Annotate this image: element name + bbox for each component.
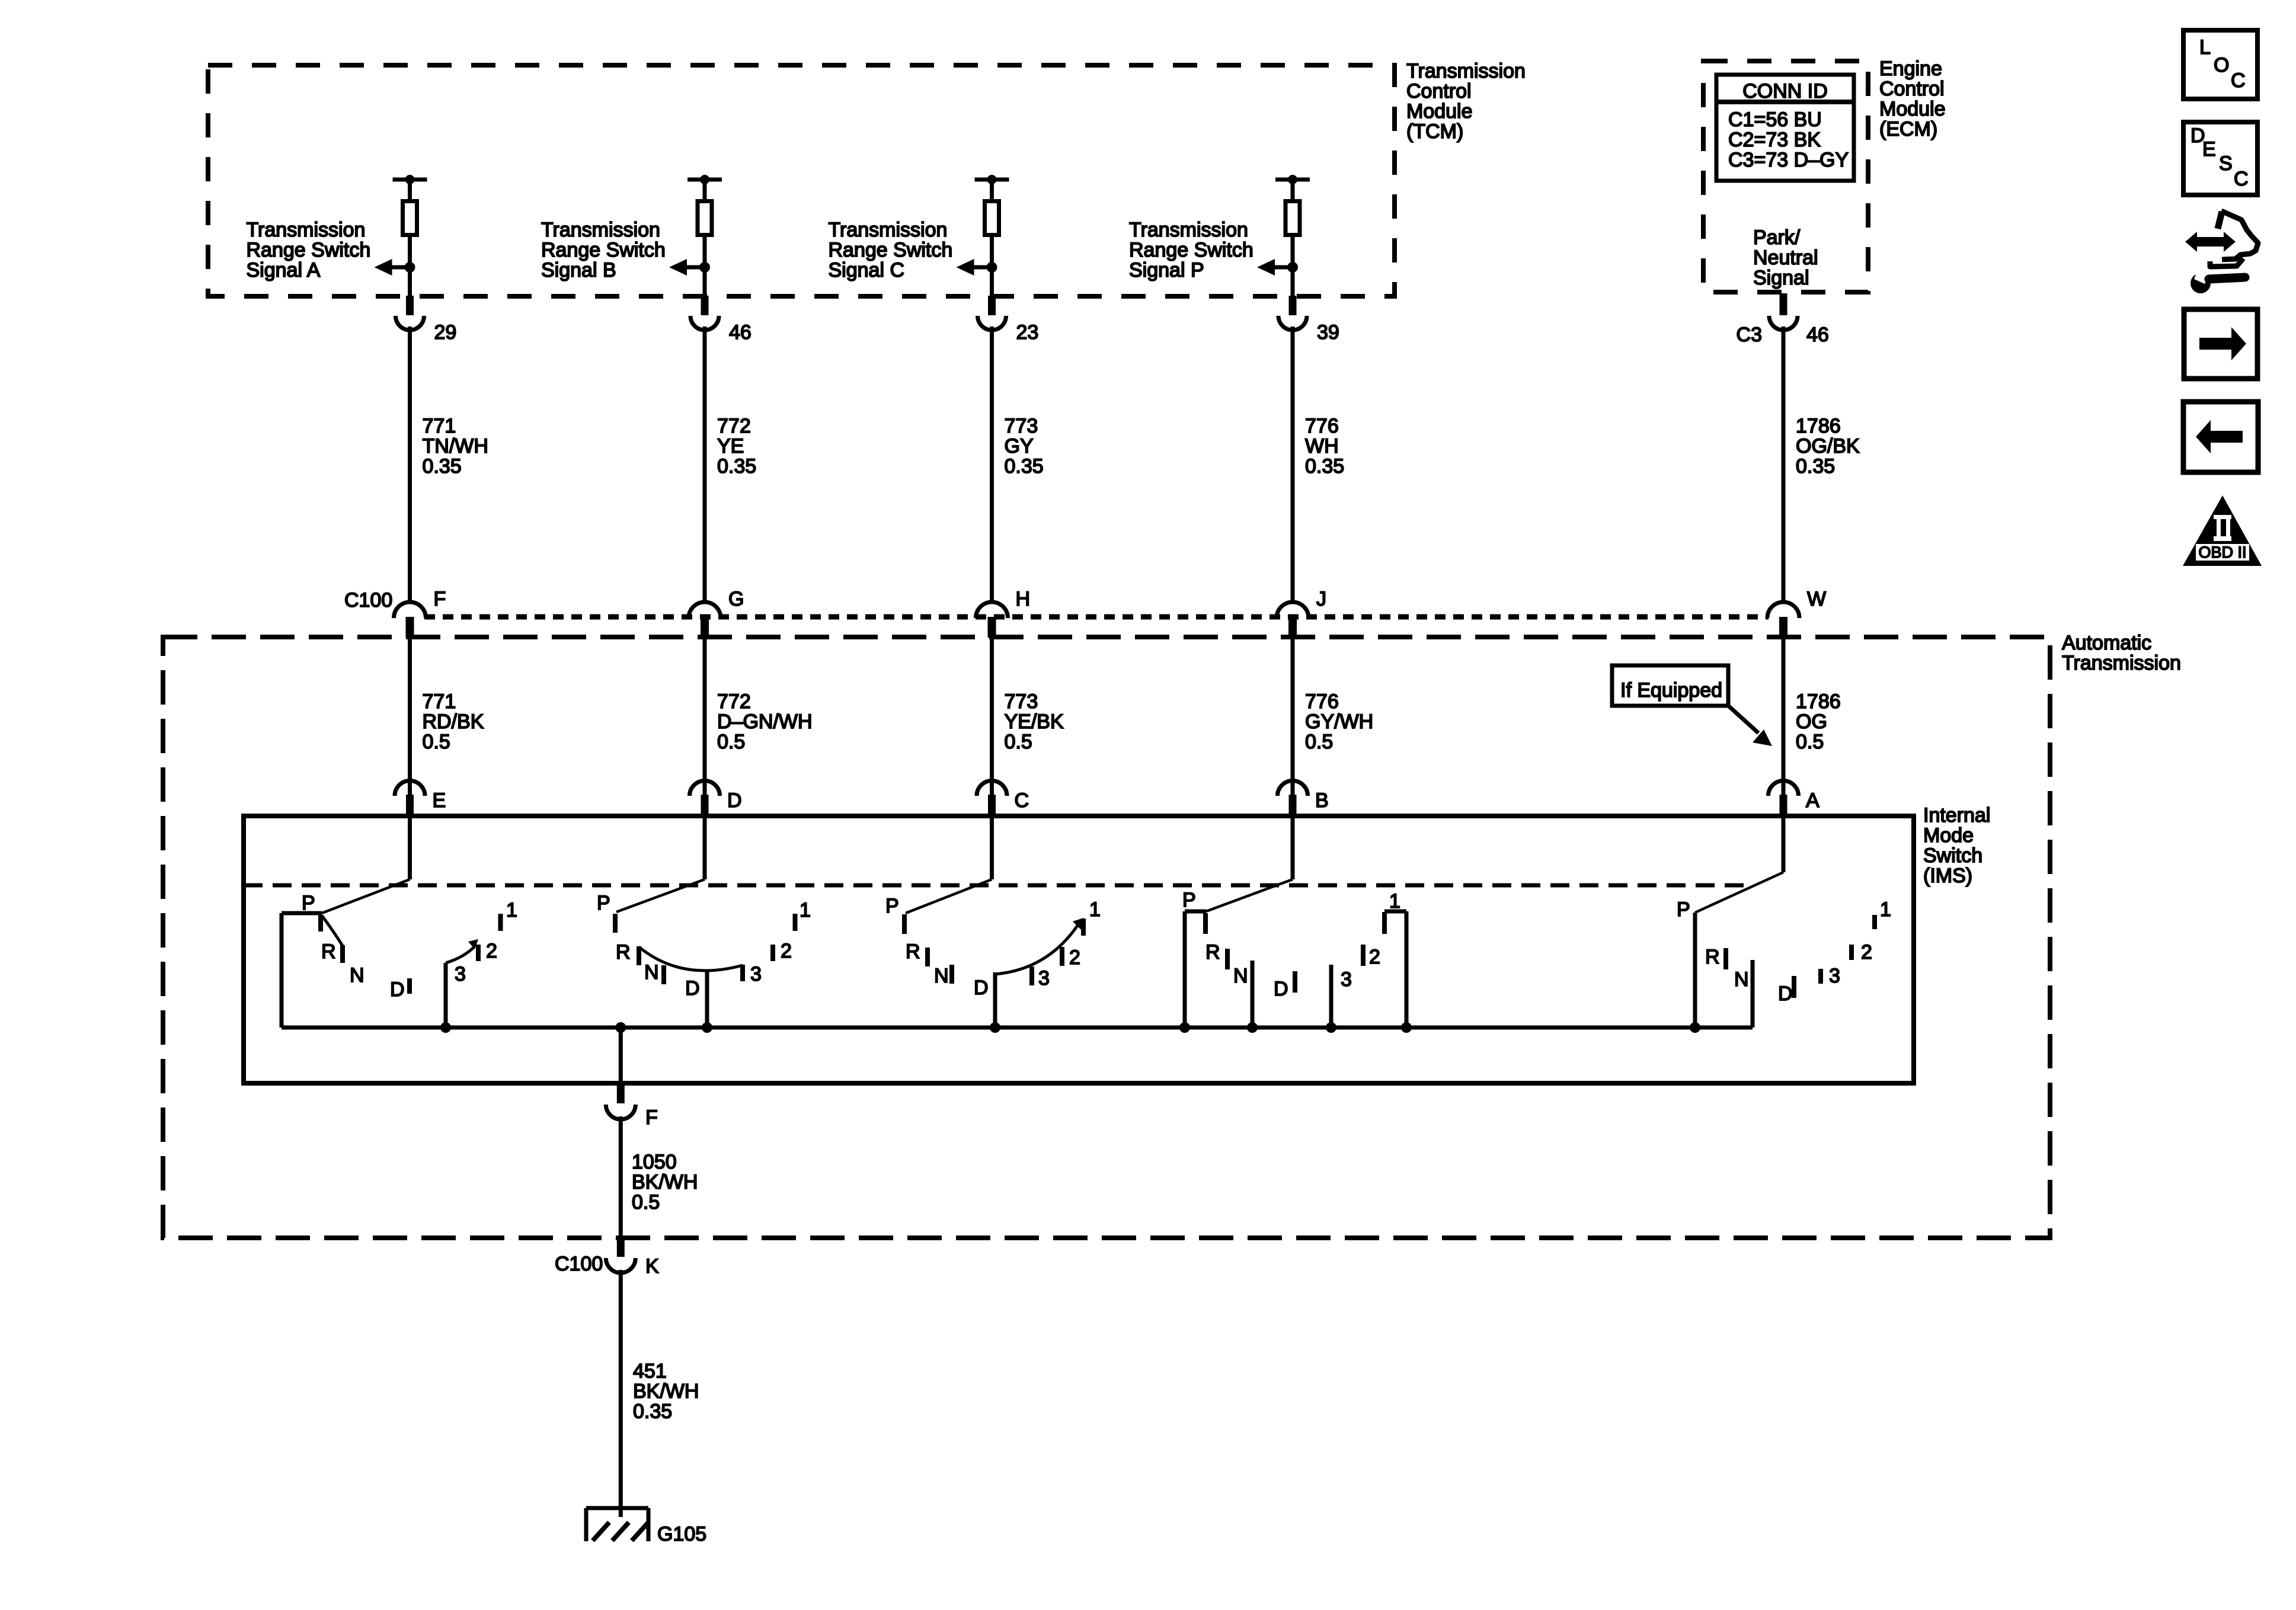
svg-text:46: 46 — [1806, 324, 1829, 346]
svg-text:P: P — [885, 895, 899, 917]
svg-text:Control: Control — [1879, 78, 1945, 100]
svg-text:F: F — [434, 588, 446, 610]
svg-text:CONN ID: CONN ID — [1742, 80, 1828, 103]
svg-text:D: D — [1778, 982, 1793, 1005]
svg-text:Module: Module — [1406, 100, 1473, 123]
svg-text:Internal: Internal — [1923, 804, 1990, 827]
svg-text:Transmission: Transmission — [247, 219, 366, 241]
svg-text:Park/: Park/ — [1753, 226, 1801, 249]
svg-text:C100: C100 — [344, 589, 392, 612]
svg-text:2: 2 — [1069, 946, 1080, 969]
svg-text:C2=73 BK: C2=73 BK — [1728, 129, 1821, 151]
svg-text:0.35: 0.35 — [633, 1400, 672, 1423]
svg-text:E: E — [2202, 138, 2216, 161]
svg-text:R: R — [906, 940, 920, 963]
svg-text:1786: 1786 — [1796, 415, 1841, 437]
svg-text:BK/WH: BK/WH — [633, 1380, 699, 1403]
svg-text:J: J — [1316, 588, 1326, 610]
svg-text:773: 773 — [1005, 690, 1038, 713]
svg-text:P: P — [302, 892, 315, 914]
svg-text:1: 1 — [800, 899, 811, 921]
svg-text:0.35: 0.35 — [1796, 455, 1835, 478]
svg-text:WH: WH — [1305, 435, 1339, 457]
svg-text:C: C — [1015, 789, 1029, 812]
svg-text:C: C — [2231, 69, 2246, 92]
svg-text:N: N — [350, 964, 364, 987]
svg-text:GY: GY — [1005, 435, 1034, 457]
svg-text:K: K — [645, 1255, 659, 1278]
svg-text:771: 771 — [423, 415, 456, 437]
svg-text:D: D — [974, 977, 989, 999]
svg-text:R: R — [616, 941, 631, 964]
svg-text:Signal B: Signal B — [541, 259, 616, 281]
svg-text:S: S — [2219, 152, 2233, 175]
svg-text:2: 2 — [781, 940, 792, 962]
svg-text:46: 46 — [729, 321, 752, 344]
svg-text:0.35: 0.35 — [717, 455, 756, 478]
svg-text:0.5: 0.5 — [632, 1191, 660, 1214]
svg-text:0.5: 0.5 — [1005, 731, 1032, 753]
svg-text:0.35: 0.35 — [1305, 455, 1344, 478]
svg-text:771: 771 — [423, 690, 456, 713]
svg-text:0.5: 0.5 — [717, 731, 745, 753]
svg-text:Range Switch: Range Switch — [541, 239, 666, 261]
svg-text:Automatic: Automatic — [2062, 632, 2151, 654]
svg-text:(TCM): (TCM) — [1406, 120, 1463, 143]
svg-text:R: R — [1205, 941, 1220, 964]
svg-text:N: N — [934, 965, 949, 987]
svg-text:1: 1 — [506, 899, 517, 921]
svg-text:P: P — [1677, 898, 1690, 921]
svg-text:Signal: Signal — [1753, 267, 1809, 289]
svg-text:0.35: 0.35 — [1005, 455, 1044, 478]
svg-text:451: 451 — [633, 1360, 667, 1382]
svg-text:R: R — [1705, 946, 1720, 968]
svg-text:D–GN/WH: D–GN/WH — [717, 710, 813, 733]
svg-text:D: D — [1274, 978, 1288, 1000]
svg-text:(ECM): (ECM) — [1879, 118, 1937, 140]
svg-text:O: O — [2214, 54, 2229, 76]
svg-text:776: 776 — [1305, 415, 1339, 437]
svg-text:0.35: 0.35 — [423, 455, 462, 478]
svg-text:39: 39 — [1317, 321, 1339, 344]
svg-text:1786: 1786 — [1796, 690, 1841, 713]
svg-text:0.5: 0.5 — [423, 731, 450, 753]
svg-text:1: 1 — [1089, 898, 1101, 921]
svg-text:2: 2 — [1369, 946, 1380, 968]
svg-text:776: 776 — [1305, 690, 1339, 713]
svg-text:Transmission: Transmission — [2062, 652, 2181, 674]
svg-text:29: 29 — [434, 321, 457, 344]
svg-text:Signal C: Signal C — [829, 259, 905, 281]
svg-text:2: 2 — [486, 940, 497, 962]
svg-text:G105: G105 — [657, 1523, 706, 1545]
svg-text:D: D — [390, 978, 405, 1001]
svg-text:C: C — [2234, 168, 2249, 190]
svg-text:772: 772 — [717, 690, 751, 713]
svg-text:W: W — [1807, 588, 1826, 610]
svg-text:Range Switch: Range Switch — [1129, 239, 1253, 261]
svg-text:A: A — [1806, 789, 1819, 812]
svg-text:2: 2 — [1861, 941, 1872, 964]
svg-text:3: 3 — [1829, 965, 1840, 987]
svg-text:L: L — [2199, 36, 2211, 59]
svg-text:1: 1 — [1880, 898, 1891, 921]
svg-text:0.5: 0.5 — [1796, 731, 1824, 753]
svg-text:OG/BK: OG/BK — [1796, 435, 1860, 457]
svg-text:C3: C3 — [1737, 324, 1762, 346]
svg-text:Signal P: Signal P — [1129, 259, 1204, 281]
svg-text:Mode: Mode — [1923, 824, 1974, 847]
svg-text:3: 3 — [1038, 967, 1050, 990]
svg-text:3: 3 — [455, 963, 466, 985]
svg-text:YE: YE — [717, 435, 744, 457]
svg-text:0.5: 0.5 — [1305, 731, 1333, 753]
svg-text:(IMS): (IMS) — [1923, 865, 1972, 887]
svg-text:Signal A: Signal A — [247, 259, 321, 281]
svg-text:3: 3 — [750, 963, 762, 985]
svg-text:3: 3 — [1341, 968, 1352, 991]
svg-text:F: F — [645, 1106, 658, 1129]
svg-text:Transmission: Transmission — [829, 219, 948, 241]
svg-text:H: H — [1016, 588, 1031, 610]
svg-text:BK/WH: BK/WH — [632, 1171, 698, 1193]
svg-text:773: 773 — [1005, 415, 1038, 437]
svg-text:B: B — [1315, 789, 1329, 812]
svg-text:N: N — [644, 961, 659, 984]
svg-text:772: 772 — [717, 415, 751, 437]
svg-text:N: N — [1734, 968, 1749, 991]
svg-text:23: 23 — [1016, 321, 1039, 344]
svg-text:1: 1 — [1389, 890, 1400, 913]
svg-text:G: G — [728, 588, 744, 610]
svg-text:TN/WH: TN/WH — [423, 435, 488, 457]
svg-text:N: N — [1233, 965, 1248, 987]
svg-text:Switch: Switch — [1923, 844, 1982, 867]
svg-text:Transmission: Transmission — [1406, 60, 1526, 82]
svg-text:C1=56 BU: C1=56 BU — [1728, 108, 1822, 131]
svg-text:E: E — [433, 789, 446, 812]
svg-text:YE/BK: YE/BK — [1005, 710, 1064, 733]
svg-text:P: P — [1182, 889, 1196, 911]
svg-text:Neutral: Neutral — [1753, 247, 1818, 269]
svg-text:D: D — [685, 977, 700, 1000]
svg-text:1050: 1050 — [632, 1151, 677, 1173]
svg-text:If Equipped: If Equipped — [1620, 679, 1722, 702]
svg-text:C100: C100 — [555, 1253, 603, 1275]
svg-text:OBD II: OBD II — [2198, 543, 2246, 561]
svg-text:Range Switch: Range Switch — [829, 239, 953, 261]
svg-text:Engine: Engine — [1879, 57, 1942, 80]
svg-text:C3=73 D–GY: C3=73 D–GY — [1728, 149, 1849, 171]
svg-text:D: D — [727, 789, 742, 812]
svg-text:Control: Control — [1406, 80, 1472, 103]
svg-text:Transmission: Transmission — [541, 219, 660, 241]
svg-text:OG: OG — [1796, 710, 1827, 733]
svg-text:Transmission: Transmission — [1129, 219, 1248, 241]
svg-text:R: R — [321, 940, 336, 963]
svg-text:Module: Module — [1879, 98, 1946, 120]
svg-text:GY/WH: GY/WH — [1305, 710, 1373, 733]
svg-text:Range Switch: Range Switch — [247, 239, 371, 261]
svg-text:P: P — [597, 892, 610, 914]
svg-text:RD/BK: RD/BK — [423, 710, 484, 733]
